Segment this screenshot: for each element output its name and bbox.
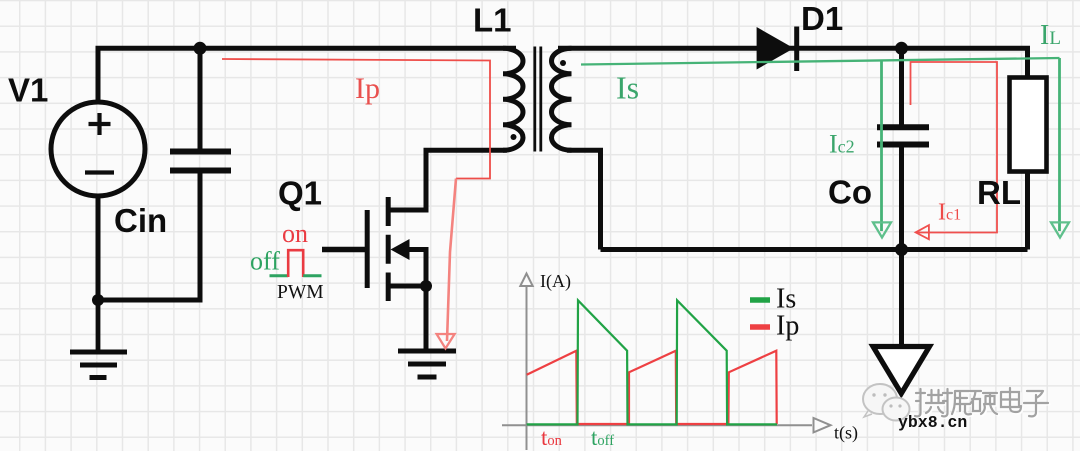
svg-text:Ic1: Ic1 <box>938 200 961 226</box>
red arrowhead Ip <box>437 334 455 349</box>
wire V1 bottom lead <box>96 196 101 300</box>
junction node at V1 bottom <box>92 294 104 306</box>
svg-text:PWM: PWM <box>277 282 324 303</box>
capacitor Co <box>877 127 929 144</box>
svg-text:Cin: Cin <box>114 202 167 239</box>
wire secondary bottom down to output return <box>567 150 601 249</box>
MOSFET Q1 body stub and connection to source <box>405 250 426 287</box>
wire bottom-left to Cin <box>98 174 200 301</box>
MOSFET Q1 source stub <box>390 284 426 289</box>
transformer L1 secondary winding <box>552 48 572 150</box>
red arrowhead Ic1 <box>916 225 929 239</box>
capacitor Co top lead <box>899 48 904 124</box>
wire top bus left: V1 top lead up and across to transformer primary <box>98 48 516 102</box>
svg-text:Is: Is <box>616 70 639 106</box>
green current path Is / IL <box>581 58 1060 231</box>
green arrowhead Is <box>873 222 891 237</box>
junction node at Cin top <box>194 42 207 55</box>
svg-text:I(A): I(A) <box>540 271 571 292</box>
wire Q1 source down to ground <box>424 286 429 351</box>
red current path Ip <box>222 59 490 349</box>
capacitor Co bottom lead <box>899 148 904 250</box>
wire top bus right: secondary to top-right corner, down to RL <box>558 48 1028 77</box>
transformer secondary polarity dot <box>560 60 566 66</box>
wire output node down to ground arrow <box>899 250 904 347</box>
watermark chinese text (simplified strokes) <box>915 388 1049 418</box>
diode D1 cathode bar <box>794 27 799 72</box>
green arrowhead IL <box>1051 222 1069 237</box>
svg-text:Ip: Ip <box>776 311 799 342</box>
chart green waveform Is <box>527 300 777 424</box>
svg-text:ybx8.cn: ybx8.cn <box>898 413 967 432</box>
svg-text:RL: RL <box>977 174 1021 211</box>
svg-text:Ip: Ip <box>355 72 380 105</box>
transformer L1 core <box>535 47 541 152</box>
watermark wechat logo <box>863 384 910 421</box>
chart X axis arrowhead <box>814 418 831 432</box>
PWM pulse waveform <box>270 250 322 277</box>
svg-text:Q1: Q1 <box>278 175 322 212</box>
MOSFET Q1 gate bar <box>365 210 370 288</box>
capacitor Cin <box>170 152 231 171</box>
junction node at output bottom <box>895 243 908 256</box>
chart legend Ip swatch <box>750 324 770 330</box>
MOSFET Q1 body arrow <box>391 239 410 260</box>
red current path Ic1 <box>911 62 998 239</box>
svg-text:IL: IL <box>1040 20 1061 51</box>
svg-text:Co: Co <box>828 174 872 211</box>
MOSFET Q1 channel segments <box>386 197 391 301</box>
svg-text:toff: toff <box>591 425 614 450</box>
ground under V1: bars <box>70 352 127 378</box>
svg-text:ton: ton <box>541 425 563 450</box>
V1 minus sign <box>85 170 114 174</box>
svg-text:Ic2: Ic2 <box>829 130 855 159</box>
wire Cin top lead <box>198 48 203 148</box>
voltage source V1 <box>51 102 145 196</box>
V1 plus sign <box>89 113 111 135</box>
ground under Q1: bars <box>398 351 456 377</box>
ground under V1: stem <box>96 300 101 351</box>
chart X axis <box>502 424 812 426</box>
svg-text:V1: V1 <box>8 72 48 109</box>
transformer primary polarity dot <box>511 134 517 140</box>
wire output bottom bus <box>601 247 1028 252</box>
wire RL bottom lead <box>1025 172 1030 250</box>
diode D1 triangle <box>757 27 794 70</box>
MOSFET Q1 gate lead wire <box>322 247 365 252</box>
transformer L1 primary winding <box>503 48 523 150</box>
junction node at output top (Co/D1/RL) <box>895 42 908 55</box>
wire primary bottom to Q1 drain <box>390 150 507 210</box>
svg-text:t(s): t(s) <box>834 423 858 444</box>
chart Y axis arrowhead <box>520 274 532 287</box>
junction node Q1 source/body <box>420 280 432 292</box>
chart legend Is swatch <box>750 297 770 303</box>
svg-text:off: off <box>250 247 280 276</box>
svg-text:on: on <box>282 219 308 248</box>
svg-text:D1: D1 <box>801 0 843 37</box>
resistor RL body <box>1010 78 1047 172</box>
ground arrow at output (open triangle) <box>873 347 930 394</box>
chart red waveform Ip <box>527 351 777 424</box>
svg-text:L1: L1 <box>473 2 512 39</box>
chart Y axis <box>502 274 831 451</box>
